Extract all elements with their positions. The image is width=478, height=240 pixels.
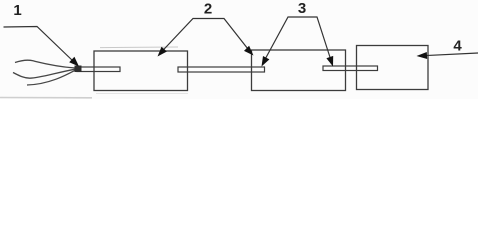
faint doubled top edge above box 1 (scan artifact): [100, 46, 178, 49]
svg-text:1: 1: [13, 2, 21, 19]
label 2 bracket and legs: [159, 19, 252, 55]
bar C (connector from box 2 into box 3): [323, 66, 378, 71]
svg-text:3: 3: [298, 0, 306, 17]
box 2: [252, 50, 346, 91]
label 1 leader polyline: [4, 27, 75, 63]
bottom scan smudge left: [0, 97, 92, 99]
label 3 left arrowhead (at bar B end in box 2): [262, 56, 270, 67]
label 1 arrowhead: [69, 57, 79, 67]
bottom scan smudge under box 1: [96, 93, 188, 95]
bar B (connector from box 1 into box 2): [178, 67, 265, 72]
label 4 leader line: [423, 53, 478, 56]
label 2 right arrowhead (at box 2 top-left): [244, 46, 254, 56]
box 1: [94, 51, 188, 91]
fiber strand S2 (middle): [13, 69, 75, 78]
label 2 left arrowhead (into box 1): [158, 47, 167, 57]
fiber strand S1 (top): [15, 60, 75, 68]
label 4 arrowhead (into box 3): [417, 52, 428, 59]
bar A (connector from splice into box 1): [77, 67, 120, 72]
svg-text:2: 2: [204, 1, 212, 18]
label 3 right arrowhead (at bar C in box 2): [326, 56, 333, 67]
splice junction (dark block where strands converge): [75, 66, 82, 73]
label 3 bracket and legs: [263, 17, 333, 64]
fiber strand S3 (bottom): [27, 70, 75, 85]
svg-text:4: 4: [453, 38, 462, 55]
box 3: [357, 46, 429, 90]
